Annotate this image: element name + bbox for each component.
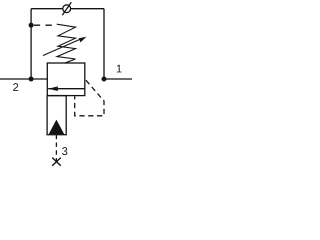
label port 1	[117, 65, 122, 73]
adjustment arrow through spring	[43, 37, 87, 56]
node dot (port 1 junction)	[102, 77, 107, 82]
plugged port X symbol	[52, 158, 61, 166]
dashed drain path (body to port-3 side)	[75, 80, 104, 116]
spring (adjustable, zigzag)	[57, 24, 76, 63]
wire left vertical (port 2 to pilot rail)	[30, 9, 32, 79]
wire port 2 line	[0, 78, 47, 80]
lower section rectangle (seat)	[47, 96, 66, 135]
node dot (port 2 junction)	[29, 77, 34, 82]
wire right vertical (port 1 to pilot rail)	[103, 9, 105, 79]
flow arrow inside body (pointing left)	[48, 86, 85, 91]
valve body (main stage square)	[47, 63, 85, 96]
wire port 1 line	[104, 78, 132, 80]
label port 2	[13, 83, 18, 91]
dashed port 3 line	[55, 135, 57, 162]
node dot (vent tap on left vertical)	[29, 23, 34, 28]
dashed vent line from left node to spring	[34, 24, 56, 26]
orifice (circle with slash) on pilot rail	[62, 2, 71, 15]
wire top rail	[31, 8, 104, 10]
label port 3	[62, 147, 67, 155]
filled poppet triangle	[49, 120, 64, 135]
